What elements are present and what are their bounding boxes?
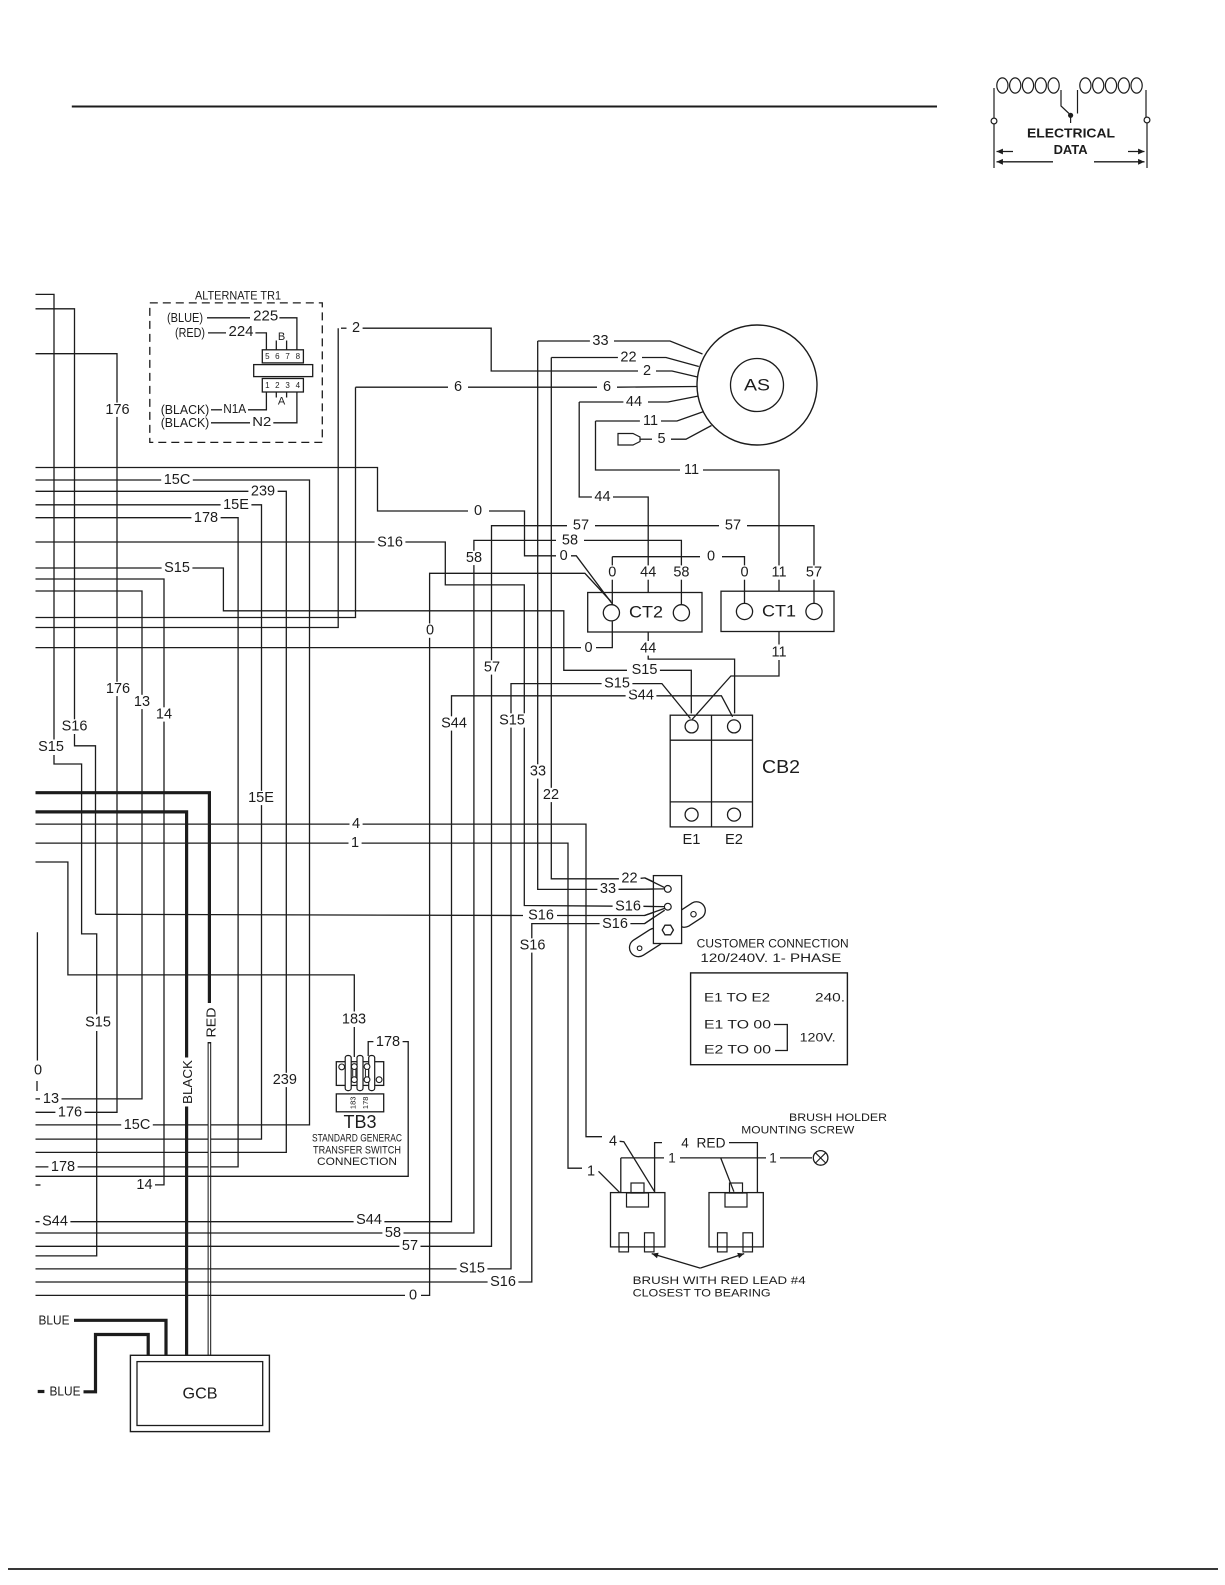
svg-text:S15: S15 xyxy=(499,713,525,729)
svg-text:4: 4 xyxy=(609,1133,617,1149)
svg-text:N2: N2 xyxy=(252,415,271,429)
svg-text:TB3: TB3 xyxy=(344,1112,377,1132)
svg-text:(RED): (RED) xyxy=(175,326,205,340)
svg-text:BLACK: BLACK xyxy=(180,1060,195,1104)
svg-text:14: 14 xyxy=(156,707,172,723)
svg-text:N1A: N1A xyxy=(223,402,247,416)
svg-text:0: 0 xyxy=(707,549,715,565)
svg-text:239: 239 xyxy=(251,483,275,499)
svg-text:B: B xyxy=(278,331,285,343)
svg-text:57: 57 xyxy=(725,518,741,534)
svg-text:11: 11 xyxy=(643,413,658,429)
svg-text:33: 33 xyxy=(592,333,608,349)
svg-text:E1 TO E2: E1 TO E2 xyxy=(704,993,770,1005)
svg-text:4: 4 xyxy=(296,381,301,390)
svg-text:4: 4 xyxy=(681,1135,689,1150)
svg-text:44: 44 xyxy=(626,394,642,410)
svg-text:CONNECTION: CONNECTION xyxy=(317,1156,397,1168)
svg-text:44: 44 xyxy=(594,489,610,505)
svg-text:S16: S16 xyxy=(377,534,403,550)
svg-text:15C: 15C xyxy=(164,472,191,488)
svg-text:0: 0 xyxy=(584,640,592,656)
svg-text:178: 178 xyxy=(376,1034,400,1050)
svg-text:E1 TO 00: E1 TO 00 xyxy=(704,1020,771,1032)
svg-text:S15: S15 xyxy=(164,560,190,576)
svg-text:58: 58 xyxy=(562,532,578,548)
svg-text:(BLACK): (BLACK) xyxy=(161,403,210,417)
svg-text:13: 13 xyxy=(134,694,150,710)
svg-text:11: 11 xyxy=(771,565,786,581)
svg-text:22: 22 xyxy=(620,350,636,366)
svg-text:178: 178 xyxy=(361,1097,370,1110)
svg-text:57: 57 xyxy=(402,1238,418,1254)
svg-text:BLUE: BLUE xyxy=(50,1385,81,1399)
svg-text:S15: S15 xyxy=(85,1015,111,1031)
svg-text:CT1: CT1 xyxy=(762,602,796,620)
svg-text:22: 22 xyxy=(621,871,637,887)
svg-text:176: 176 xyxy=(105,402,129,418)
svg-text:S16: S16 xyxy=(528,908,554,924)
svg-text:14: 14 xyxy=(136,1177,152,1193)
svg-text:178: 178 xyxy=(194,510,218,526)
svg-text:5: 5 xyxy=(657,431,665,447)
svg-text:11: 11 xyxy=(684,462,699,478)
svg-text:MOUNTING SCREW: MOUNTING SCREW xyxy=(741,1124,855,1136)
svg-text:S15: S15 xyxy=(38,739,64,755)
svg-text:2: 2 xyxy=(352,320,360,336)
svg-text:1: 1 xyxy=(265,381,270,390)
svg-text:CB2: CB2 xyxy=(762,757,800,777)
svg-text:224: 224 xyxy=(228,323,253,340)
svg-text:57: 57 xyxy=(484,660,500,676)
svg-text:(BLUE): (BLUE) xyxy=(167,311,203,325)
svg-text:E2: E2 xyxy=(725,832,743,848)
svg-text:S44: S44 xyxy=(441,716,467,732)
svg-text:2: 2 xyxy=(643,363,651,379)
svg-text:15E: 15E xyxy=(248,790,274,806)
svg-text:CT2: CT2 xyxy=(629,604,663,622)
svg-text:0: 0 xyxy=(608,565,616,581)
svg-text:S15: S15 xyxy=(604,675,630,691)
svg-text:GCB: GCB xyxy=(183,1386,218,1403)
svg-text:8: 8 xyxy=(296,352,301,361)
svg-text:120V.: 120V. xyxy=(800,1033,836,1045)
svg-text:E2 TO 00: E2 TO 00 xyxy=(704,1045,771,1057)
svg-text:0: 0 xyxy=(560,548,568,564)
svg-text:0: 0 xyxy=(409,1287,417,1303)
svg-text:RED: RED xyxy=(697,1135,726,1150)
svg-text:183: 183 xyxy=(349,1097,358,1110)
svg-text:44: 44 xyxy=(640,641,656,657)
svg-text:4: 4 xyxy=(352,816,360,832)
svg-text:1: 1 xyxy=(351,835,359,851)
svg-text:44: 44 xyxy=(640,565,656,581)
svg-text:DATA: DATA xyxy=(1054,142,1088,157)
svg-text:0: 0 xyxy=(740,565,748,581)
svg-text:S15: S15 xyxy=(459,1261,485,1277)
svg-text:AS: AS xyxy=(744,376,770,395)
svg-text:S44: S44 xyxy=(356,1212,382,1228)
svg-text:E1: E1 xyxy=(683,832,701,848)
svg-text:BRUSH HOLDER: BRUSH HOLDER xyxy=(789,1112,887,1124)
svg-text:S44: S44 xyxy=(42,1214,68,1230)
svg-text:176: 176 xyxy=(106,681,130,697)
svg-text:225: 225 xyxy=(253,308,278,325)
svg-text:CUSTOMER CONNECTION: CUSTOMER CONNECTION xyxy=(697,938,849,950)
svg-text:22: 22 xyxy=(543,787,559,803)
svg-text:239: 239 xyxy=(273,1072,297,1088)
svg-text:58: 58 xyxy=(673,565,689,581)
svg-text:0: 0 xyxy=(34,1063,42,1079)
svg-text:33: 33 xyxy=(530,764,546,780)
svg-text:S16: S16 xyxy=(490,1274,516,1290)
svg-text:ALTERNATE TR1: ALTERNATE TR1 xyxy=(195,289,281,303)
svg-text:6: 6 xyxy=(603,379,611,395)
svg-text:6: 6 xyxy=(275,352,280,361)
svg-text:STANDARD GENERAC: STANDARD GENERAC xyxy=(312,1133,402,1145)
svg-text:7: 7 xyxy=(285,352,290,361)
svg-text:1: 1 xyxy=(668,1150,676,1165)
svg-text:(BLACK): (BLACK) xyxy=(161,416,210,430)
svg-text:33: 33 xyxy=(600,881,616,897)
svg-text:5: 5 xyxy=(265,352,270,361)
svg-text:240.: 240. xyxy=(815,993,845,1005)
svg-text:15C: 15C xyxy=(124,1117,151,1133)
svg-text:58: 58 xyxy=(385,1225,401,1241)
svg-text:1: 1 xyxy=(587,1163,595,1179)
svg-text:0: 0 xyxy=(426,623,434,639)
svg-text:S16: S16 xyxy=(602,916,628,932)
svg-text:BLUE: BLUE xyxy=(39,1314,70,1328)
svg-text:BRUSH WITH RED LEAD #4: BRUSH WITH RED LEAD #4 xyxy=(633,1275,806,1287)
svg-text:3: 3 xyxy=(285,381,290,390)
svg-text:S16: S16 xyxy=(615,898,641,914)
svg-text:57: 57 xyxy=(806,565,822,581)
svg-text:176: 176 xyxy=(58,1104,82,1120)
svg-text:13: 13 xyxy=(43,1091,59,1107)
svg-text:183: 183 xyxy=(342,1011,366,1027)
svg-text:S16: S16 xyxy=(520,938,546,954)
svg-text:RED: RED xyxy=(204,1008,219,1038)
svg-text:6: 6 xyxy=(454,379,462,395)
svg-text:S15: S15 xyxy=(632,662,658,678)
svg-text:A: A xyxy=(278,396,286,408)
svg-text:S16: S16 xyxy=(62,719,88,735)
svg-text:2: 2 xyxy=(275,381,280,390)
svg-text:178: 178 xyxy=(51,1159,75,1175)
svg-text:11: 11 xyxy=(771,644,786,660)
svg-text:1: 1 xyxy=(769,1150,777,1165)
svg-text:58: 58 xyxy=(466,550,482,566)
svg-text:CLOSEST TO BEARING: CLOSEST TO BEARING xyxy=(633,1287,771,1299)
svg-text:ELECTRICAL: ELECTRICAL xyxy=(1027,126,1115,141)
svg-text:57: 57 xyxy=(573,518,589,534)
svg-text:TRANSFER SWITCH: TRANSFER SWITCH xyxy=(313,1145,401,1157)
svg-text:15E: 15E xyxy=(223,497,249,513)
svg-text:0: 0 xyxy=(474,503,482,519)
svg-text:120/240V. 1- PHASE: 120/240V. 1- PHASE xyxy=(700,953,841,965)
